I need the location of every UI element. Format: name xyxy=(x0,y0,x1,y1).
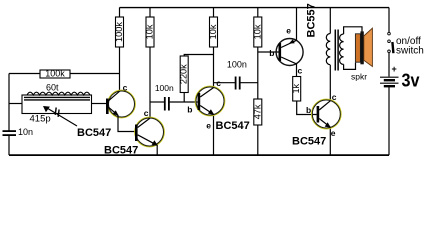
battery BT1 3v xyxy=(380,77,399,86)
wire R6 top xyxy=(257,8,259,18)
svg-text:b: b xyxy=(306,105,311,115)
svg-text:BC547: BC547 xyxy=(77,127,111,139)
wire Q2 collector to C2 xyxy=(150,101,164,103)
switch SW1 on/off xyxy=(388,32,394,53)
svg-text:+: + xyxy=(392,64,397,74)
svg-text:100n: 100n xyxy=(227,60,247,70)
resistor R5 10k vertical xyxy=(208,17,218,47)
svg-text:415p: 415p xyxy=(30,114,51,125)
wire tank right to Q1 base xyxy=(91,103,106,105)
svg-text:100n: 100n xyxy=(155,83,174,93)
svg-text:60t: 60t xyxy=(46,83,59,93)
wire secondary top to speaker xyxy=(344,27,362,34)
svg-text:b: b xyxy=(269,48,274,58)
svg-text:BC557: BC557 xyxy=(306,3,318,37)
wire R6 bottom to R7 top xyxy=(257,47,259,99)
wire transformer primary top to rail xyxy=(329,8,331,34)
resistor R4 220k vertical xyxy=(179,56,189,93)
svg-text:1k: 1k xyxy=(291,83,301,93)
coil L1 60t tank box xyxy=(22,92,92,113)
transistor Q3 BC547 xyxy=(196,87,225,116)
svg-text:e: e xyxy=(206,120,211,130)
svg-text:3v: 3v xyxy=(402,71,420,91)
svg-text:e: e xyxy=(331,128,336,138)
resistor R7 47k vertical xyxy=(252,99,262,125)
wire R2 bottom to Q1 collector xyxy=(119,47,121,91)
wire R5 top xyxy=(213,8,215,18)
transistor Q5 BC547 xyxy=(312,100,341,129)
wire left rail lower xyxy=(8,136,10,156)
svg-text:10n: 10n xyxy=(18,127,33,137)
wire tank left xyxy=(9,103,22,105)
resistor R2 100k vertical xyxy=(114,17,124,47)
resistor R3 10k vertical xyxy=(145,17,155,47)
svg-text:100k: 100k xyxy=(45,69,65,79)
svg-text:10k: 10k xyxy=(252,24,262,39)
svg-text:c: c xyxy=(123,83,128,93)
svg-text:c: c xyxy=(144,108,149,118)
wire Q3 emitter to ground xyxy=(213,115,215,156)
transformer T1 secondary winding xyxy=(340,34,344,64)
svg-text:BC547: BC547 xyxy=(216,120,250,132)
svg-text:10k: 10k xyxy=(208,24,218,39)
wire battery to ground xyxy=(388,87,390,155)
svg-text:c: c xyxy=(332,92,337,102)
svg-text:switch: switch xyxy=(396,46,424,57)
svg-text:c: c xyxy=(216,78,221,88)
resistor R1 100k horizontal xyxy=(40,69,70,79)
transistor Q2 BC547 xyxy=(135,118,164,156)
wire secondary bottom to speaker xyxy=(344,63,356,70)
wire R8 bottom to Q5 base xyxy=(297,101,317,115)
capacitor C1 10n xyxy=(3,131,17,135)
wire C2 to Q3 base xyxy=(170,101,198,103)
wire R3 top xyxy=(149,8,151,18)
svg-text:220k: 220k xyxy=(179,64,189,84)
svg-text:BC547: BC547 xyxy=(104,145,138,157)
svg-text:47k: 47k xyxy=(252,104,262,119)
wire Q5 emitter to ground xyxy=(329,127,331,155)
transformer T1 core xyxy=(334,30,336,71)
wire R7 bottom to ground xyxy=(257,125,259,155)
svg-text:c: c xyxy=(298,66,303,76)
wire top supply rail xyxy=(120,7,390,9)
wire Q4 collector to R8 xyxy=(296,64,298,77)
wire left rail upper xyxy=(8,74,10,131)
wire R2 top xyxy=(119,8,121,18)
svg-text:100k: 100k xyxy=(114,22,124,42)
svg-text:b: b xyxy=(187,105,192,115)
wire R4 bottom to Q3 base xyxy=(183,93,185,103)
capacitor C3 100n xyxy=(236,77,240,90)
wire R3 bottom to Q2 collector xyxy=(149,47,151,118)
wire switch to battery xyxy=(388,53,390,77)
svg-text:10k: 10k xyxy=(145,24,155,39)
wire Q3 collector to C3 xyxy=(214,82,236,84)
wire switch top xyxy=(388,8,390,33)
transistor Q1 BC547 xyxy=(106,91,135,132)
wire bottom ground rail xyxy=(9,154,389,156)
variable capacitor VC1 415p xyxy=(43,106,77,126)
wire 100k feedback right xyxy=(70,73,120,75)
wire 100k feedback left xyxy=(9,73,40,75)
wire R4 top link xyxy=(184,55,213,57)
resistor R8 1k vertical xyxy=(291,77,301,102)
svg-text:spkr: spkr xyxy=(351,72,367,82)
wire Q4 base xyxy=(258,51,279,53)
transistor Q4 BC557 pnp xyxy=(276,39,303,66)
wire C3 to R6 R7 junction xyxy=(240,82,257,84)
transformer T1 primary winding xyxy=(326,34,330,65)
speaker SPKR xyxy=(355,28,372,66)
resistor R6 10k vertical xyxy=(252,17,262,47)
wire Q4 emitter to rail xyxy=(296,8,298,41)
wire R5 bottom to Q3 collector xyxy=(213,47,215,88)
capacitor C2 100n xyxy=(165,97,169,111)
svg-text:e: e xyxy=(286,26,291,36)
svg-text:BC547: BC547 xyxy=(292,136,326,148)
wire Q5 collector to transformer xyxy=(329,65,331,101)
